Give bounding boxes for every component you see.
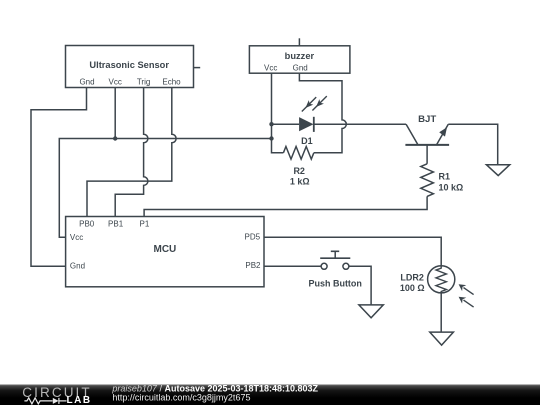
- wire MCU P1 to R1 bottom: [144, 196, 427, 216]
- footer bar: [0, 383, 540, 405]
- junction node A lower: [269, 136, 273, 140]
- diode D1 light arrow 2: [312, 96, 326, 110]
- svg-text:PB0: PB0: [79, 219, 95, 228]
- junction node sensor Vcc: [113, 136, 117, 140]
- junction node A anode: [269, 122, 273, 126]
- svg-text:Vcc: Vcc: [70, 233, 83, 242]
- svg-text:PB1: PB1: [108, 219, 124, 228]
- svg-text:buzzer: buzzer: [285, 51, 315, 61]
- ultrasonic sensor U2 box: [66, 46, 194, 88]
- wire LED anode: [272, 123, 300, 125]
- transistor Q1 BJT base bar: [405, 144, 449, 146]
- wire MCU PD5 to LDR top: [264, 237, 442, 265]
- svg-text:BJT: BJT: [418, 114, 436, 125]
- diode D1 triangle: [299, 117, 313, 131]
- transistor Q1 emitter arrowhead: [439, 127, 447, 136]
- svg-text:Vcc: Vcc: [264, 64, 277, 73]
- ground near push button: [359, 305, 383, 318]
- svg-text:R1: R1: [439, 172, 451, 182]
- wire BJT emitter to ground: [448, 124, 497, 164]
- diode D1 light arrow 1: [302, 97, 316, 111]
- transistor Q1 collector diagonal: [406, 124, 418, 145]
- wire buzzer Vcc down to node A: [271, 74, 273, 125]
- wire LDR bottom to ground: [440, 293, 442, 332]
- push button SW1 contacts: [321, 263, 349, 269]
- LDR2 light arrow 1: [459, 284, 474, 294]
- ultrasonic sensor right stub: [194, 67, 201, 69]
- svg-text:PB2: PB2: [245, 261, 261, 270]
- svg-text:Gnd: Gnd: [79, 78, 94, 87]
- svg-text:MCU: MCU: [154, 244, 177, 255]
- wire buzzer Gnd to R2 right with hop: [299, 74, 346, 153]
- svg-text:PD5: PD5: [245, 233, 261, 242]
- photoresistor LDR2 zigzag: [436, 266, 446, 294]
- buzzer top stub: [298, 38, 300, 46]
- svg-text:P1: P1: [140, 219, 150, 228]
- svg-text:10 kΩ: 10 kΩ: [439, 182, 464, 192]
- svg-text:Gnd: Gnd: [70, 262, 85, 271]
- svg-text:http://circuitlab.com/c3g8jjmy: http://circuitlab.com/c3g8jjmy2t675: [112, 392, 250, 402]
- wire push button to ground: [349, 266, 371, 304]
- wire Trig to MCU PB1: [115, 88, 148, 217]
- LDR2 light arrow 2: [459, 297, 474, 307]
- svg-text:LDR2: LDR2: [400, 272, 424, 282]
- buzzer box: [249, 46, 350, 73]
- svg-text:1 kΩ: 1 kΩ: [290, 176, 310, 186]
- resistor R2 zigzag: [283, 147, 313, 160]
- svg-text:Gnd: Gnd: [293, 64, 308, 73]
- svg-text:100 Ω: 100 Ω: [400, 283, 425, 293]
- diode D1 cathode bar: [313, 117, 315, 132]
- wire Vcc bus MCU Vcc to buzzer node with hops: [59, 139, 271, 238]
- svg-text:Vcc: Vcc: [109, 78, 122, 87]
- svg-text:LAB: LAB: [67, 395, 92, 405]
- svg-text:Trig: Trig: [137, 78, 150, 87]
- wire LED cathode to BJT collector: [314, 123, 406, 125]
- svg-text:Push Button: Push Button: [308, 279, 362, 289]
- wire sensor Vcc pin down: [114, 88, 116, 139]
- wire Echo to MCU PB0 with hop: [87, 88, 176, 217]
- ground below LDR2: [430, 332, 454, 345]
- CircuitLab logo resistor-diode squiggle: [24, 398, 66, 404]
- ground near BJT: [486, 165, 509, 176]
- svg-text:Ultrasonic Sensor: Ultrasonic Sensor: [89, 60, 169, 70]
- push button SW1 actuator: [320, 251, 350, 258]
- svg-text:D1: D1: [301, 136, 313, 146]
- svg-text:Echo: Echo: [162, 78, 181, 87]
- wire sensor Gnd to MCU Gnd: [31, 88, 87, 267]
- resistor R1 zigzag: [421, 164, 434, 197]
- MCU box: [66, 217, 264, 287]
- transistor Q1 emitter diagonal: [437, 124, 449, 145]
- wire node A down to R2 left: [272, 124, 284, 153]
- wire MCU PB2 to push button: [264, 265, 321, 267]
- svg-text:R2: R2: [293, 166, 305, 176]
- transistor Q1 base lead: [426, 145, 428, 164]
- photoresistor LDR2 circle: [428, 266, 455, 293]
